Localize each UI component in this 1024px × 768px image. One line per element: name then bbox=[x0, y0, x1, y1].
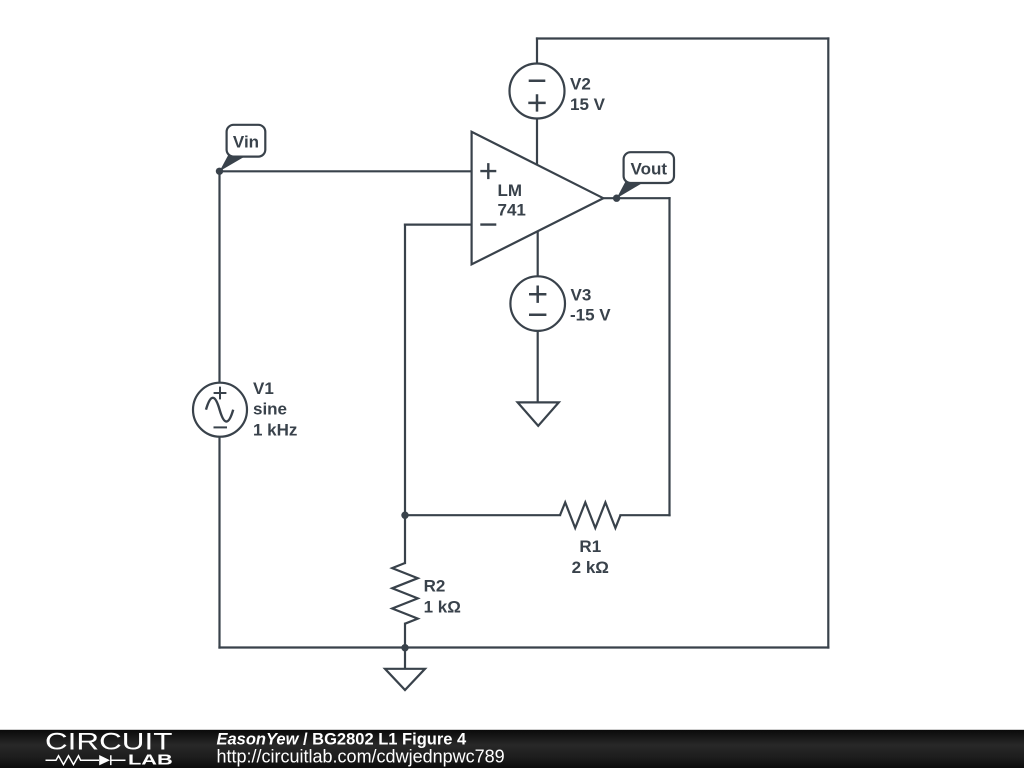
svg-text:V1: V1 bbox=[253, 379, 274, 398]
wire Vin node to op-amp + input bbox=[220, 170, 472, 172]
voltage source V2 bbox=[510, 64, 606, 119]
node Vin flag bbox=[220, 125, 266, 172]
node ground junction dot bbox=[401, 644, 408, 651]
node Vin junction dot bbox=[216, 168, 223, 175]
wire right rail bbox=[827, 39, 829, 648]
node Vout junction dot bbox=[613, 195, 620, 202]
svg-text:741: 741 bbox=[498, 201, 526, 220]
wire output vertical bbox=[668, 198, 670, 515]
wire V2 top lead bbox=[536, 39, 538, 64]
wire R1 right to output vertical bbox=[621, 514, 670, 516]
svg-text:R1: R1 bbox=[579, 537, 601, 556]
wire node to R1 left bbox=[405, 514, 560, 516]
wire bottom rail bbox=[220, 646, 829, 648]
wire op-amp - input horizontal bbox=[405, 224, 472, 226]
wire V3 bottom lead bbox=[537, 331, 539, 403]
svg-text:LAB: LAB bbox=[128, 753, 173, 768]
wire feedback vertical bbox=[404, 225, 406, 516]
svg-text:LM: LM bbox=[498, 181, 523, 200]
node feedback junction dot bbox=[401, 512, 408, 519]
svg-text:V2: V2 bbox=[570, 75, 591, 94]
svg-text:1 kΩ: 1 kΩ bbox=[424, 598, 461, 617]
wire V1 top lead bbox=[218, 171, 220, 382]
svg-text:1 kHz: 1 kHz bbox=[253, 420, 297, 439]
wire R2 top lead bbox=[404, 515, 406, 563]
wire top rail bbox=[537, 37, 828, 39]
svg-text:15 V: 15 V bbox=[570, 95, 606, 114]
wire V1 bottom lead bbox=[218, 437, 220, 648]
svg-text:2 kΩ: 2 kΩ bbox=[572, 558, 609, 577]
wire op-amp output to vertical bbox=[603, 197, 669, 199]
svg-text:V3: V3 bbox=[571, 286, 592, 305]
wire ground stem below R2 node bbox=[404, 648, 406, 669]
resistor R1 bbox=[560, 502, 621, 577]
wire V2 bottom lead bbox=[536, 119, 538, 166]
node Vout flag bbox=[617, 152, 674, 198]
svg-text:Vout: Vout bbox=[631, 160, 668, 179]
voltage source V3 bbox=[510, 276, 611, 331]
svg-text:sine: sine bbox=[253, 400, 287, 419]
wire R2 bottom lead bbox=[404, 624, 406, 648]
op-amp U1 LM741 bbox=[472, 132, 604, 265]
CircuitLab logo resistor-diode glyph bbox=[46, 755, 126, 765]
svg-text:R2: R2 bbox=[424, 577, 446, 596]
resistor R2 bbox=[392, 563, 461, 624]
ground below V3 bbox=[518, 402, 559, 425]
svg-text:-15 V: -15 V bbox=[570, 306, 611, 325]
wire V3 top lead bbox=[537, 231, 539, 276]
voltage source V1 (sine) bbox=[193, 379, 297, 439]
svg-text:http://circuitlab.com/cdwjednp: http://circuitlab.com/cdwjednpwc789 bbox=[217, 747, 505, 767]
ground below R2 bbox=[385, 669, 425, 690]
footer bar bbox=[0, 729, 1024, 768]
svg-text:Vin: Vin bbox=[233, 132, 259, 151]
